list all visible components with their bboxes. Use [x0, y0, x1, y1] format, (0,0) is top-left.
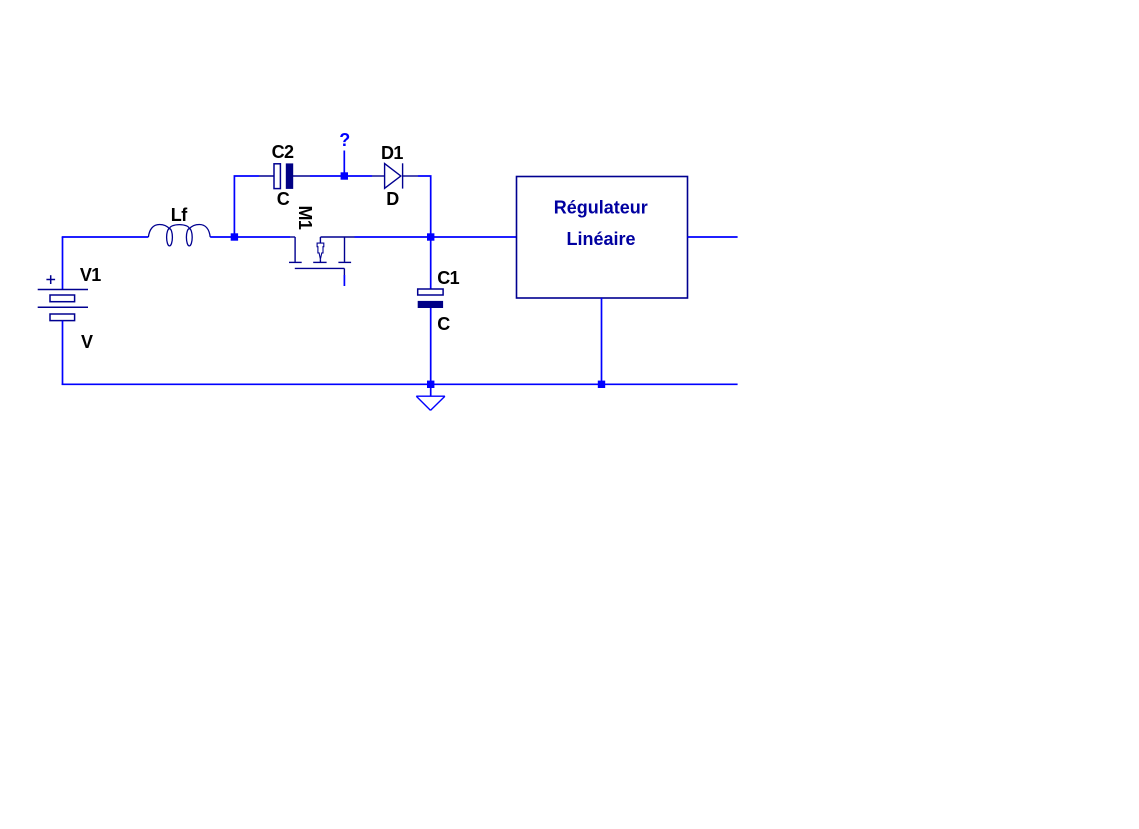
- regulator box U1: [517, 177, 688, 299]
- node B junction: [427, 233, 434, 240]
- svg-text:C: C: [437, 314, 450, 334]
- wire ? stub: [343, 151, 345, 177]
- wire battery bottom vertical: [62, 321, 64, 385]
- wire node ? to diode: [344, 175, 372, 177]
- wire C2 to node ?: [310, 175, 344, 177]
- battery V1: [38, 275, 88, 320]
- wire ground stub: [430, 384, 432, 396]
- transistor M1: [289, 237, 355, 275]
- wire top-left horizontal to inductor: [62, 236, 149, 238]
- inductor Lf: [148, 225, 210, 246]
- wire M1 gate stub: [343, 275, 345, 286]
- wire mid rail MOSFET to regulator: [355, 236, 517, 238]
- svg-text:C2: C2: [272, 142, 294, 162]
- node C1/ground junction: [427, 381, 434, 388]
- svg-text:?: ?: [339, 130, 349, 150]
- svg-text:V: V: [81, 332, 93, 352]
- wire C1 down to bottom rail: [430, 308, 432, 384]
- svg-text:D1: D1: [381, 143, 403, 163]
- wire regulator output: [688, 236, 738, 238]
- svg-text:V1: V1: [80, 265, 101, 285]
- diode D1: [372, 163, 418, 188]
- capacitor C1: [418, 289, 443, 308]
- node ? junction: [341, 172, 348, 179]
- svg-text:C1: C1: [437, 268, 459, 288]
- ground: [416, 396, 445, 410]
- wire regulator bottom: [601, 298, 603, 384]
- wire diode to mid rail corner: [418, 176, 431, 237]
- wire node B down to C1: [430, 237, 432, 289]
- wire inductor to node A: [210, 236, 290, 238]
- svg-text:Lf: Lf: [171, 205, 188, 225]
- capacitor C2: [259, 163, 310, 189]
- svg-text:Linéaire: Linéaire: [566, 229, 635, 249]
- node regulator/rail junction: [598, 381, 605, 388]
- node A junction: [231, 233, 238, 240]
- wire battery top vertical: [62, 237, 64, 290]
- svg-text:M1: M1: [295, 206, 315, 230]
- wire bottom rail: [62, 383, 738, 385]
- svg-text:Régulateur: Régulateur: [554, 197, 648, 217]
- svg-text:C: C: [277, 189, 290, 209]
- svg-text:D: D: [386, 189, 399, 209]
- wire node A up to C2 branch: [234, 176, 259, 237]
